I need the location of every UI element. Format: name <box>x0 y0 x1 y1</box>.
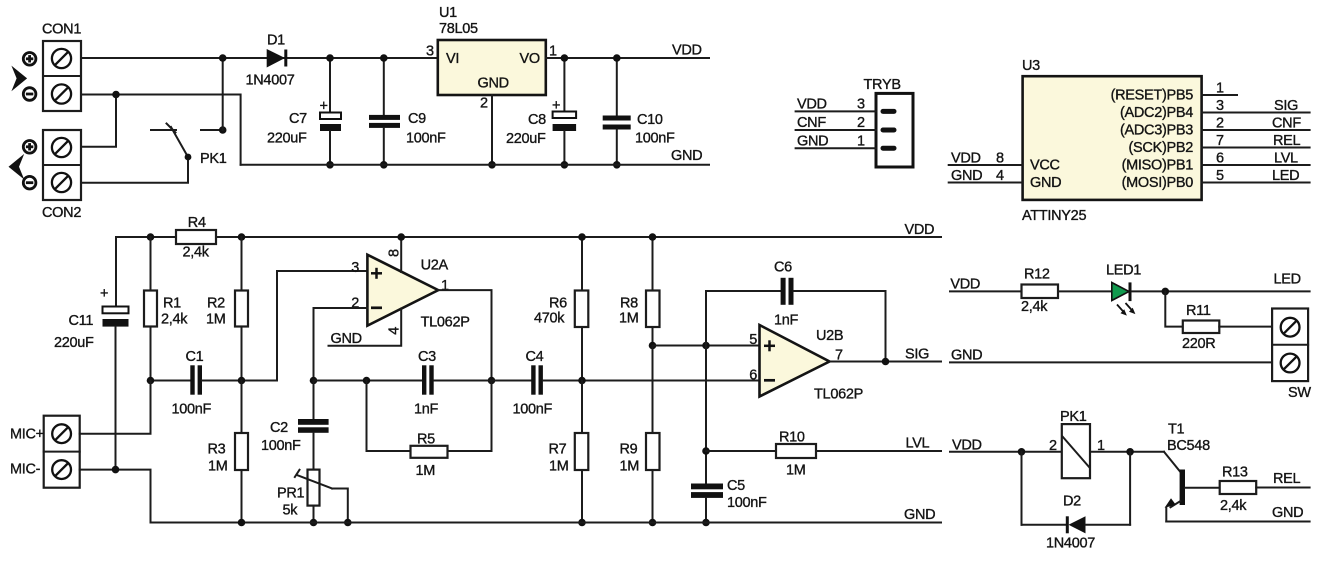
resistor R4 <box>176 215 216 261</box>
resistor R1 <box>144 237 188 381</box>
svg-text:GND: GND <box>671 148 702 164</box>
svg-text:BC548: BC548 <box>1167 438 1210 454</box>
node C7 bottom <box>326 161 334 169</box>
svg-text:7: 7 <box>1216 133 1224 149</box>
node R5/C3 branch <box>363 377 371 385</box>
svg-text:3: 3 <box>857 97 865 113</box>
node R4 left <box>147 233 155 241</box>
node R2 bottom <box>238 377 246 385</box>
wire U2A pin4 to gnd label <box>329 309 402 346</box>
svg-text:C5: C5 <box>727 478 745 494</box>
capacitor C5 <box>691 478 767 523</box>
svg-text:220uF: 220uF <box>506 131 546 147</box>
svg-text:R2: R2 <box>207 296 225 312</box>
switch PK1 (contact) <box>151 124 227 168</box>
node R6 bottom <box>578 377 586 385</box>
node PR1 wiper gnd <box>344 519 352 527</box>
svg-text:2,4k: 2,4k <box>183 245 210 261</box>
svg-text:2: 2 <box>857 115 865 131</box>
microcontroller U3 ATTINY25 <box>1022 58 1202 224</box>
svg-text:GND: GND <box>1030 175 1061 191</box>
svg-text:PK1: PK1 <box>1060 409 1087 425</box>
capacitor C11 <box>54 286 129 470</box>
wire CON2+ up to CON1- node <box>81 95 116 147</box>
capacitor C7 <box>267 58 341 165</box>
svg-text:R5: R5 <box>417 432 435 448</box>
resistor R8 <box>619 237 660 346</box>
wire U3 pin2 CNF <box>1202 129 1310 131</box>
svg-text:U1: U1 <box>439 5 457 21</box>
svg-text:GND: GND <box>478 75 509 91</box>
svg-text:REL: REL <box>1273 133 1301 149</box>
node LVL branch <box>702 447 710 455</box>
svg-text:C9: C9 <box>408 111 426 127</box>
svg-text:R7: R7 <box>549 441 567 457</box>
wire GND rail top <box>241 164 709 166</box>
node R7 bottom <box>578 519 586 527</box>
node C10 top <box>613 54 621 62</box>
svg-text:LVL: LVL <box>906 436 930 452</box>
svg-text:3: 3 <box>351 260 359 276</box>
wire noninverting input run <box>653 345 760 347</box>
wire U2B output SIG <box>830 361 942 363</box>
svg-text:R13: R13 <box>1222 465 1248 481</box>
svg-text:MIC+: MIC+ <box>10 426 44 442</box>
node R3 bottom <box>238 519 246 527</box>
resistor R2 <box>206 237 248 381</box>
node relay left <box>1018 448 1026 456</box>
node CON1-/CON2+ <box>112 91 120 99</box>
svg-text:CON1: CON1 <box>42 22 81 38</box>
svg-text:C6: C6 <box>774 260 792 276</box>
wire VDD to relay <box>950 451 1062 453</box>
svg-text:MIC-: MIC- <box>10 462 41 478</box>
svg-text:220uF: 220uF <box>54 335 94 351</box>
input arrow right <box>11 66 27 92</box>
capacitor C9 <box>369 58 446 165</box>
LED LED1 <box>1106 263 1141 316</box>
svg-text:4: 4 <box>996 168 1004 184</box>
svg-text:R10: R10 <box>779 430 805 446</box>
node on + rail <box>219 54 227 62</box>
svg-text:CNF: CNF <box>797 115 826 131</box>
svg-text:TL062P: TL062P <box>421 315 470 331</box>
resistor R3 <box>208 381 249 523</box>
svg-text:100nF: 100nF <box>635 131 675 147</box>
svg-text:5: 5 <box>749 332 757 348</box>
svg-text:C1: C1 <box>186 349 204 365</box>
capacitor C10 <box>603 58 675 165</box>
node C8 bottom <box>561 161 569 169</box>
node relay right <box>1126 448 1134 456</box>
svg-text:T1: T1 <box>1168 421 1185 437</box>
resistor R13 <box>1220 465 1310 515</box>
svg-text:LED1: LED1 <box>1106 263 1141 279</box>
node C8 top <box>561 54 569 62</box>
svg-text:3: 3 <box>426 44 434 60</box>
wire U3 pin8 VCC <box>949 164 1023 166</box>
svg-text:TRYB: TRYB <box>864 77 901 93</box>
connector MIC <box>10 416 80 488</box>
resistor R12 <box>1021 267 1112 316</box>
connector TRYB <box>864 77 914 167</box>
svg-text:+: + <box>552 98 560 114</box>
node U1 pin2 gnd <box>488 161 496 169</box>
resistor R5 <box>367 381 492 480</box>
svg-text:2,4k: 2,4k <box>161 312 188 328</box>
svg-text:(ADC2)PB4: (ADC2)PB4 <box>1120 105 1193 121</box>
svg-text:GND: GND <box>331 331 362 347</box>
svg-text:1M: 1M <box>208 458 228 474</box>
connector CON1 <box>42 22 81 112</box>
svg-text:U3: U3 <box>1022 58 1040 74</box>
svg-text:C3: C3 <box>418 349 436 365</box>
svg-text:CNF: CNF <box>1272 116 1301 132</box>
svg-text:(SCK)PB2: (SCK)PB2 <box>1129 140 1194 156</box>
svg-text:GND: GND <box>951 348 982 364</box>
node switch to top rail <box>219 126 227 134</box>
wire inverting node run <box>314 380 423 382</box>
wire U3 pin4 GND <box>949 182 1023 184</box>
input arrow left <box>9 154 25 180</box>
wire emitter to GND <box>1166 521 1309 523</box>
svg-text:C8: C8 <box>528 112 546 128</box>
wire VDD rail down to C11 <box>115 237 117 305</box>
svg-text:1M: 1M <box>786 463 806 479</box>
svg-text:LED: LED <box>1274 272 1301 288</box>
svg-text:D2: D2 <box>1063 494 1081 510</box>
svg-text:R4: R4 <box>188 215 206 231</box>
capacitor C2 <box>261 381 329 470</box>
svg-text:VO: VO <box>520 51 540 67</box>
svg-text:VDD: VDD <box>951 151 981 167</box>
resistor R10 <box>706 430 941 479</box>
resistor R9 <box>620 346 660 523</box>
svg-text:CON2: CON2 <box>42 205 81 221</box>
svg-text:2: 2 <box>1216 116 1224 132</box>
svg-text:220uF: 220uF <box>267 130 307 146</box>
svg-text:1: 1 <box>857 134 865 150</box>
svg-text:1N4007: 1N4007 <box>1046 536 1095 552</box>
svg-text:GND: GND <box>904 507 935 523</box>
wire VDD rail audio <box>116 236 941 238</box>
svg-text:U2A: U2A <box>421 258 449 274</box>
svg-text:8: 8 <box>996 151 1004 167</box>
svg-text:2,4k: 2,4k <box>1021 299 1048 315</box>
svg-text:VDD: VDD <box>672 43 702 59</box>
connector SW <box>1272 309 1311 402</box>
svg-text:1N4007: 1N4007 <box>246 73 295 89</box>
node U2A pin8 <box>397 233 405 241</box>
svg-text:R1: R1 <box>163 296 181 312</box>
svg-text:+: + <box>100 286 108 302</box>
svg-text:VCC: VCC <box>1030 158 1060 174</box>
capacitor C8 <box>506 58 576 165</box>
wire VDD to R12 <box>950 290 1022 292</box>
svg-text:VDD: VDD <box>905 222 935 238</box>
svg-text:C4: C4 <box>526 349 544 365</box>
minus symbol CON2 <box>23 176 36 189</box>
resistor R7 <box>549 381 589 523</box>
wire U2A pin2 <box>314 308 368 381</box>
wire GND rail audio <box>151 522 942 524</box>
node R8 top <box>649 233 657 241</box>
wire CON1+ to D1 to U1 <box>81 57 438 59</box>
svg-text:2: 2 <box>351 296 359 312</box>
capacitor C1 <box>151 349 278 417</box>
svg-text:LED: LED <box>1272 168 1299 184</box>
wire LVL branch <box>705 346 707 484</box>
svg-text:C2: C2 <box>270 420 288 436</box>
svg-text:1nF: 1nF <box>414 402 439 418</box>
capacitor C4 <box>492 349 760 418</box>
svg-text:(MOSI)PB0: (MOSI)PB0 <box>1122 175 1194 191</box>
minus symbol CON1 <box>23 88 36 101</box>
svg-text:GND: GND <box>951 168 982 184</box>
svg-text:100nF: 100nF <box>172 401 212 417</box>
node U2A out on wire <box>488 377 496 385</box>
svg-text:PK1: PK1 <box>200 151 227 167</box>
diode D2 <box>1022 452 1131 552</box>
svg-text:R6: R6 <box>549 295 567 311</box>
node C7 top <box>326 54 334 62</box>
wire CON1- horizontal <box>81 95 241 165</box>
svg-text:D1: D1 <box>267 33 285 49</box>
wire CON2- to switch <box>81 157 188 183</box>
svg-text:U2B: U2B <box>816 328 843 344</box>
svg-text:R11: R11 <box>1186 303 1211 319</box>
wire U3 pin7 REL <box>1202 147 1310 149</box>
voltage regulator U1 78L05 <box>426 5 557 112</box>
node pin2 column <box>310 377 318 385</box>
svg-text:1M: 1M <box>416 463 436 479</box>
svg-text:1M: 1M <box>206 312 226 328</box>
node C6 branch on pin5 wire <box>702 342 710 350</box>
svg-text:2: 2 <box>480 96 488 112</box>
wire U3 pin6 LVL <box>1202 164 1310 166</box>
node C10 bottom <box>613 161 621 169</box>
svg-text:C11: C11 <box>69 313 94 329</box>
node R9 bottom <box>649 519 657 527</box>
svg-text:(RESET)PB5: (RESET)PB5 <box>1111 88 1194 104</box>
node C11 bottom on MIC- wire <box>112 466 120 474</box>
svg-text:ATTINY25: ATTINY25 <box>1022 208 1086 224</box>
resistor R6 <box>534 237 588 381</box>
svg-text:R9: R9 <box>620 441 638 457</box>
wire relay pin1 to T1 <box>1090 451 1164 453</box>
svg-text:6: 6 <box>749 368 757 384</box>
svg-text:R12: R12 <box>1024 267 1050 283</box>
plus symbol CON2 <box>23 141 36 154</box>
wire TRYB pin1 GND <box>796 147 876 149</box>
wire TRYB pin3 VDD <box>796 110 876 112</box>
svg-text:PR1: PR1 <box>277 486 305 502</box>
svg-text:5k: 5k <box>283 503 299 519</box>
svg-text:100nF: 100nF <box>727 495 767 511</box>
connector CON2 <box>42 130 81 221</box>
wire MIC- to gnd <box>80 470 151 523</box>
svg-text:1: 1 <box>1216 81 1224 97</box>
svg-text:VDD: VDD <box>797 97 827 113</box>
node PR1 bottom <box>310 519 318 527</box>
svg-text:LVL: LVL <box>1274 151 1298 167</box>
svg-text:R3: R3 <box>208 441 226 457</box>
resistor R11 <box>1165 291 1272 352</box>
potentiometer PR1 <box>277 470 348 523</box>
node C6 to output <box>882 358 890 366</box>
node R4 right <box>238 233 246 241</box>
svg-text:1M: 1M <box>620 458 640 474</box>
wire U1 VO to VDD <box>546 57 709 59</box>
svg-text:100nF: 100nF <box>406 130 446 146</box>
wire U3 pin1 <box>1202 94 1237 96</box>
svg-text:8: 8 <box>387 249 403 257</box>
node C9 top <box>380 54 388 62</box>
wire MIC+ to C1 node <box>80 381 151 434</box>
svg-text:6: 6 <box>1216 151 1224 167</box>
svg-text:TL062P: TL062P <box>814 387 863 403</box>
wire U2A pin8 to VDD <box>400 237 402 272</box>
svg-text:VDD: VDD <box>950 276 980 292</box>
svg-text:C10: C10 <box>637 112 663 128</box>
node R8 bottom <box>649 342 657 350</box>
svg-text:1M: 1M <box>549 458 569 474</box>
capacitor C3 <box>414 349 492 418</box>
op-amp U2B <box>749 325 863 403</box>
plus symbol CON1 <box>23 53 36 66</box>
svg-text:4: 4 <box>387 327 403 335</box>
svg-text:SW: SW <box>1288 385 1311 401</box>
relay coil PK1 <box>1049 409 1105 478</box>
svg-text:1: 1 <box>441 278 449 294</box>
wire U3 pin5 LED <box>1202 182 1310 184</box>
svg-text:GND: GND <box>1272 505 1303 521</box>
svg-text:+: + <box>320 99 328 115</box>
svg-text:1M: 1M <box>619 310 639 326</box>
capacitor C6 <box>706 260 886 362</box>
svg-text:220R: 220R <box>1182 336 1215 352</box>
svg-text:3: 3 <box>1216 98 1224 114</box>
wire switch node up <box>222 58 224 130</box>
node C1 left / R1 bottom <box>147 377 155 385</box>
op-amp U2A <box>351 255 469 331</box>
svg-text:SIG: SIG <box>1274 98 1298 114</box>
svg-text:470k: 470k <box>534 310 565 326</box>
wire LED1 to LED label <box>1132 290 1310 292</box>
wire U2A output down <box>438 290 491 380</box>
svg-text:GND: GND <box>797 134 828 150</box>
svg-text:2: 2 <box>1049 438 1057 454</box>
wire GND to SW <box>950 361 1272 363</box>
diode D1 <box>246 33 295 89</box>
node C5 bottom <box>702 519 710 527</box>
svg-text:5: 5 <box>1216 168 1224 184</box>
svg-text:2,4k: 2,4k <box>1220 498 1247 514</box>
svg-text:VI: VI <box>446 51 459 67</box>
node LED branch <box>1162 288 1170 296</box>
node C9 bottom <box>380 161 388 169</box>
node R6 top <box>578 233 586 241</box>
svg-text:SIG: SIG <box>905 346 929 362</box>
wire U1 pin2 to ground <box>491 95 493 165</box>
svg-text:100nF: 100nF <box>513 402 553 418</box>
svg-text:R8: R8 <box>620 295 638 311</box>
svg-text:REL: REL <box>1273 471 1301 487</box>
svg-text:(ADC3)PB3: (ADC3)PB3 <box>1120 123 1193 139</box>
svg-text:100nF: 100nF <box>261 438 301 454</box>
svg-text:78L05: 78L05 <box>439 21 478 37</box>
wire U3 pin3 SIG <box>1202 112 1310 114</box>
transistor T1 BC548 <box>1164 421 1220 521</box>
svg-text:1nF: 1nF <box>774 313 799 329</box>
svg-text:C7: C7 <box>289 111 307 127</box>
wire TRYB pin2 CNF <box>796 129 876 131</box>
svg-text:(MISO)PB1: (MISO)PB1 <box>1122 158 1194 174</box>
wire C1 up to U2A pin3 <box>277 271 367 381</box>
